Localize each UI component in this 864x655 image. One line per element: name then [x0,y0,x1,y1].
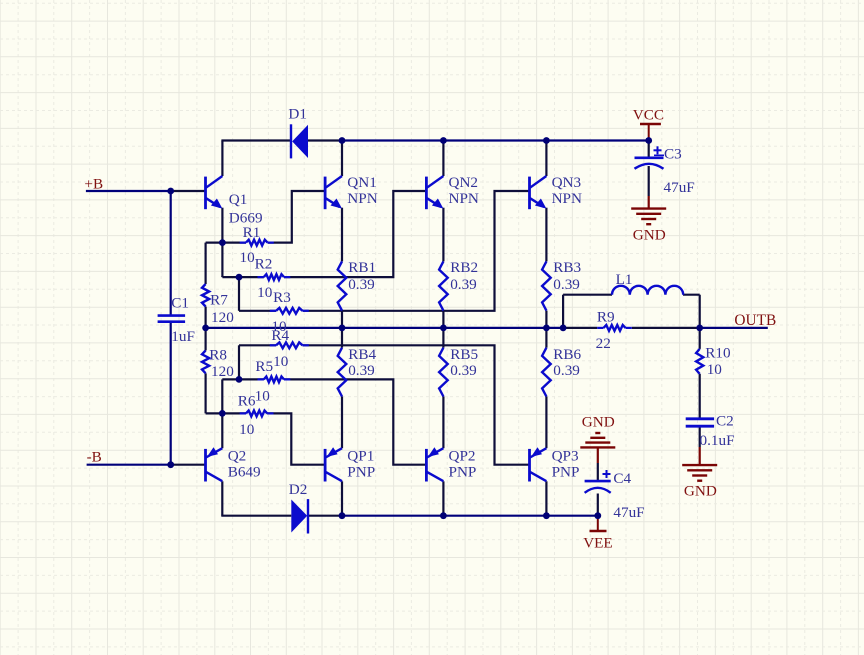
resistor R7 [202,284,209,307]
svg-text:R1: R1 [243,224,261,241]
wire top rail left segment [221,139,291,141]
wire VCC node to C3 [648,141,650,158]
resistor R6 [240,411,274,417]
svg-text:120: 120 [211,363,234,380]
wire +B to C1 node [86,190,171,192]
wire QN1 emitter to RB1 [341,208,343,262]
svg-text:R2: R2 [255,256,273,273]
node bottom rail / QP3 collector [543,512,550,519]
net label GND below C3 [633,226,666,243]
wire R1 right lead up to QN1 base [268,191,326,243]
wire node A down to R2 row [221,243,223,278]
resistor R9 [597,325,632,331]
wire C2 to GND [699,426,701,465]
label QP2 [449,448,477,481]
wire R7 bottom lead [205,307,207,328]
svg-text:R8: R8 [209,346,227,363]
svg-text:RB3: RB3 [553,259,581,276]
wire R3 right lead up to QN3 base [303,191,530,311]
wire QN2 emitter to RB2 [442,208,444,262]
svg-text:10: 10 [257,284,273,301]
wire C3 to GND [648,166,650,209]
svg-text:0.39: 0.39 [450,362,477,379]
transistor QN2 [426,176,443,209]
wire R3 left lead [239,310,276,312]
wire R5 right lead down to QP2 base [284,379,426,464]
node mid rail / RB1 RB4 [339,325,346,332]
svg-text:R4: R4 [271,327,289,344]
wire C1 lower lead [170,322,172,465]
wire node B down to R3 row [238,277,240,311]
label RB2 [450,259,478,293]
svg-text:+B: +B [84,175,103,192]
svg-text:Q1: Q1 [229,191,248,208]
label R8 [209,346,234,380]
node mid rail / RB3 RB6 [543,325,550,332]
wire QN1 collector riser [341,141,343,177]
label R5 [255,358,274,404]
wire RB5 top lead [442,328,444,348]
wire R6 right lead down to QP1 base [267,413,325,464]
svg-text:0.39: 0.39 [348,362,375,379]
svg-text:VEE: VEE [583,534,613,551]
svg-text:QP2: QP2 [449,448,476,465]
svg-text:Q2: Q2 [228,448,247,465]
label Q2 [228,448,261,481]
node mid rail / RB2 RB5 [440,325,447,332]
transistor QP3 [530,447,547,481]
svg-text:GND: GND [633,226,666,243]
resistor R1 [240,240,274,246]
svg-text:QN2: QN2 [449,174,479,191]
wire C4 to VEE node [597,494,599,516]
transistor QN1 [325,176,342,209]
wire QN2 collector riser [442,141,444,177]
svg-text:RB6: RB6 [553,346,581,363]
label C3 [664,145,695,196]
wire L1 branch riser [562,295,564,328]
svg-text:GND: GND [684,482,717,499]
svg-text:QP3: QP3 [552,448,579,465]
wire RB4 to QP1 emitter [341,397,343,449]
wire QP1 collector drop [341,481,343,515]
label L1 [616,271,633,288]
wire R2 left lead [222,276,263,277]
wire L1 right lead [683,294,700,296]
ground below C3 [631,209,666,225]
node top rail / QN1 collector [339,137,346,144]
wire QN3 emitter to RB3 [545,208,547,262]
wire R10 top lead [699,328,701,349]
net label +B [84,175,103,192]
svg-text:0.1uF: 0.1uF [700,432,735,449]
net label VEE [583,534,613,551]
svg-text:R10: R10 [705,345,731,362]
svg-text:GND: GND [582,414,615,431]
wire bottom rail QP1 node to C4 node [342,515,598,517]
wire OUTB stub [700,327,768,329]
wire R6 left lead [222,412,246,414]
svg-text:C3: C3 [664,145,682,162]
label RB1 [348,259,376,293]
svg-text:R5: R5 [255,358,273,375]
label R10 [705,345,731,379]
wire RB6 top lead [545,328,547,348]
wire Q2 collector drop [221,481,223,515]
node top rail / QN2 collector [440,137,447,144]
svg-text:0.39: 0.39 [553,362,580,379]
wire node C to R8 bottom corner [206,412,223,414]
svg-text:NPN: NPN [347,190,377,207]
label R1 [240,224,261,266]
svg-text:QN3: QN3 [552,174,582,191]
node A (Q1 emitter / R1 / R7) [219,239,226,246]
wire Q1 emitter to node A [221,208,223,243]
svg-text:10: 10 [255,388,271,405]
svg-text:B649: B649 [228,464,261,481]
wire RB2 to mid rail [442,311,444,328]
svg-text:R3: R3 [273,289,291,306]
transistor QP2 [426,447,443,481]
wire node A to R7 top corner [206,242,223,244]
node +B / C1 [167,188,174,195]
net label OUTB [734,312,776,329]
label QN2 [449,174,479,207]
node D (R5 / R4 tap) [236,376,243,383]
wire -B to C1 node [87,464,171,466]
inductor L1 [612,286,683,295]
wire R7 top lead [205,243,207,284]
net label -B [87,448,102,465]
label QP3 [552,448,580,481]
node VEE / C4 [594,512,601,519]
svg-text:C4: C4 [613,470,631,487]
node top rail / QN3 collector [543,137,550,144]
wire R8 top lead [205,328,207,351]
net label GND above C4 [582,414,615,431]
svg-text:PNP: PNP [552,464,580,481]
node -B / C1 [167,461,174,468]
wire bottom rail left segment [221,515,291,517]
wire C1 node to Q1 base [171,190,206,192]
transistor Q1 [206,176,223,209]
svg-text:47uF: 47uF [664,179,695,196]
wire L1 left lead [563,294,612,296]
svg-text:RB4: RB4 [348,346,376,363]
wire node C up to R5 row [221,379,223,413]
wire C1 node to Q2 base [171,464,206,466]
svg-text:PNP: PNP [347,464,375,481]
svg-text:47uF: 47uF [613,504,644,521]
wire RB6 to QP3 emitter [545,397,547,449]
resistor RB1 [338,261,347,310]
svg-text:22: 22 [596,335,611,352]
svg-text:OUTB: OUTB [734,312,776,329]
wire QP2 collector drop [442,481,444,515]
label QN3 [552,174,582,207]
label C2 [700,413,735,449]
wire mid rail left of R9 [206,327,598,329]
wire node D up to R4 row [238,345,240,379]
resistor R10 [696,349,703,374]
wire Q1 collector riser [221,141,223,177]
svg-text:R9: R9 [597,308,615,325]
svg-text:NPN: NPN [552,190,582,207]
resistor R8 [202,351,209,374]
capacitor C2 [686,419,714,426]
wire RB4 top lead [341,328,343,348]
wire R8 bottom lead [205,373,207,413]
svg-text:-B: -B [87,448,102,465]
net label GND below C2 [684,482,717,499]
label QP1 [347,448,375,481]
label RB5 [450,346,478,379]
capacitor C3 [635,146,665,169]
label D1 [288,106,307,123]
label R3 [271,289,290,335]
resistor R3 [270,308,309,314]
wire top rail D1 cathode to QN1 node [308,139,342,141]
net label VCC [633,107,664,124]
wire RB1 to mid rail [341,311,343,328]
label R9 [596,308,615,351]
svg-text:R6: R6 [238,393,256,410]
svg-text:RB5: RB5 [450,346,478,363]
svg-text:QP1: QP1 [347,448,374,465]
svg-text:0.39: 0.39 [553,276,580,293]
node C (Q2 emitter / R6 / R8) [219,410,226,417]
label RB3 [553,259,581,293]
node bottom rail / QP2 collector [440,512,447,519]
svg-text:RB1: RB1 [348,259,376,276]
resistor R5 [258,377,291,383]
svg-text:RB2: RB2 [450,259,478,276]
transistor QN3 [530,176,547,209]
node bottom rail / QP1 collector [339,512,346,519]
label C4 [613,470,644,521]
ground above C4 [580,433,615,447]
diode D1 [291,124,308,158]
svg-text:D2: D2 [289,481,308,498]
svg-text:1uF: 1uF [171,328,195,345]
label R2 [255,256,273,302]
svg-text:VCC: VCC [633,107,664,124]
label R7 [210,292,234,327]
capacitor C4 [585,470,611,493]
transistor Q2 [206,447,223,481]
wire QN3 collector riser [545,141,547,177]
resistor R2 [258,274,291,280]
label R6 [238,393,256,438]
wire R5 left lead [222,378,263,380]
svg-text:QN1: QN1 [347,174,377,191]
label R4 [271,327,289,370]
svg-text:D1: D1 [288,106,307,123]
wire GND to C4 [597,447,599,481]
node B (R2 / R3 tap) [236,274,243,281]
node mid rail / R7 R8 [202,325,209,332]
diode D2 [291,499,308,533]
svg-text:L1: L1 [616,271,633,288]
transistor QP1 [325,447,342,481]
svg-text:C1: C1 [171,294,189,311]
label D2 [289,481,308,498]
svg-text:120: 120 [211,309,234,326]
wire C1 upper lead [170,191,172,316]
svg-text:10: 10 [707,361,723,378]
wire R4 right lead down to QP3 base [303,345,530,464]
svg-text:C2: C2 [716,413,734,430]
wire R2 right lead up to QN2 base [284,191,426,277]
node mid rail / L1 branch [560,325,567,332]
svg-text:0.39: 0.39 [348,276,375,293]
wire QP3 collector drop [545,481,547,515]
svg-text:R7: R7 [210,292,228,309]
wire L1 drop to OUTB node [699,295,701,328]
resistor R4 [270,342,309,348]
node OUTB (L1 / R9 / R10) [696,325,703,332]
svg-text:0.39: 0.39 [450,276,477,293]
ground below C2 [682,465,717,481]
label QN1 [347,174,377,207]
power VCC [640,124,661,141]
wire R10 to C2 [699,374,701,419]
svg-text:10: 10 [240,249,256,266]
wire top rail QN1 node to VCC node [342,139,649,141]
wire bottom rail D2 to QP1 node [308,515,342,517]
svg-text:PNP: PNP [449,464,477,481]
wire R1 left lead [222,242,246,244]
resistor RB2 [439,261,448,310]
capacitor C1 [158,316,186,322]
wire RB3 to mid rail [545,311,547,328]
svg-text:10: 10 [239,421,255,438]
label C1 [171,294,195,345]
power VEE [590,516,607,531]
label Q1 [229,191,263,226]
label RB6 [553,346,581,379]
resistor RB3 [542,261,551,310]
svg-text:10: 10 [273,353,289,370]
svg-text:NPN: NPN [449,190,479,207]
wire mid rail R9 to OUTB node [632,327,700,329]
resistor RB4 [338,348,347,397]
label RB4 [348,346,376,379]
wire R4 left lead [239,344,276,346]
resistor RB5 [439,348,448,397]
wire Q2 emitter to node C [221,413,223,448]
node VCC / C3 [645,137,652,144]
wire RB5 to QP2 emitter [442,397,444,449]
resistor RB6 [542,348,551,397]
